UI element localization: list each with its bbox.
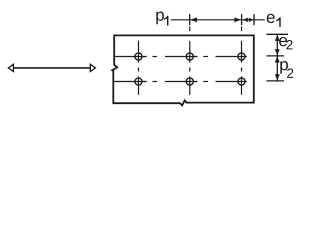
extension tick column 3 [241,14,243,25]
bolt B5 [186,78,193,85]
extension tick bolt row 2 [266,80,284,82]
bolt B4 [135,78,142,85]
dimension line e2/p2 (right) [276,35,278,81]
bolt B3 [238,53,245,60]
load arrowhead left (open) [8,64,13,71]
plate outline with break symbols [112,35,254,105]
extension tick plate right edge [253,14,255,25]
centerline row 2 [114,81,247,83]
bolt B1 [135,53,142,60]
load arrow shaft [13,67,91,69]
label e2 [279,37,287,46]
centerline row 1 [114,56,247,58]
load arrowhead right (open) [90,64,95,71]
bolt B2 [186,53,193,60]
arrow p2 up [275,56,280,62]
bolt B6 [238,78,245,85]
label p1 [156,12,164,25]
label p2 [280,61,288,74]
extension tick column 2 [189,14,191,25]
arrow p2 down [275,74,280,80]
arrow p1 right [234,17,241,22]
centerline column 1 [138,41,140,95]
extension tick bolt row 1 [266,55,284,57]
arrow p1 left [190,17,197,22]
arrow e2 down [275,49,280,55]
centerline column 2 [189,26,191,94]
arrow e1 left [243,18,248,22]
label e1 [267,14,275,23]
arrow e2 up [275,35,280,41]
dimension line p1/e1 (top) [171,19,265,21]
arrow e1 right [249,18,253,22]
extension tick plate top edge [266,33,288,35]
centerline column 3 [241,26,243,94]
